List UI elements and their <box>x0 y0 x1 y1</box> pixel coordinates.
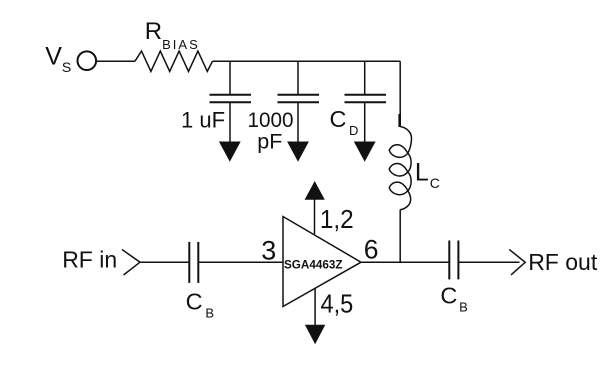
svg-text:RF out: RF out <box>528 249 598 275</box>
svg-text:4,5: 4,5 <box>321 288 354 318</box>
svg-text:3: 3 <box>261 236 276 266</box>
wire RF in to CB1 <box>140 261 189 263</box>
svg-text:pF: pF <box>257 130 282 154</box>
svg-text:1000: 1000 <box>248 108 294 132</box>
svg-text:1,2: 1,2 <box>320 204 354 234</box>
wire pin 6 to CB2 <box>361 261 449 263</box>
pin 1,2 arrow to supply <box>305 181 325 234</box>
ground C2 <box>287 142 309 162</box>
ground C1 <box>219 142 241 162</box>
wire C3 stub <box>364 61 366 94</box>
port RF in chevron <box>122 250 140 276</box>
resistor RBIAS <box>135 51 213 71</box>
pin 4,5 arrow to ground <box>305 289 325 345</box>
svg-text:1 uF: 1 uF <box>181 107 225 132</box>
svg-text:6: 6 <box>364 234 379 264</box>
capacitor CB2 <box>449 241 458 280</box>
capacitor C3 (CD) <box>345 95 387 102</box>
inductor LC <box>389 114 411 210</box>
wire C3 to ground <box>364 102 366 143</box>
capacitor C1 (1 uF) <box>210 95 252 102</box>
capacitor C2 (1000 pF) <box>278 95 320 102</box>
wire C1 to ground <box>229 102 231 143</box>
wire C2 stub <box>297 61 299 94</box>
wire rail corner to LC <box>399 61 401 126</box>
ground C3 <box>354 142 376 162</box>
op-amp U1 SGA4463Z <box>283 217 361 307</box>
wire VS to RBIAS <box>97 60 136 62</box>
wire C2 to ground <box>297 102 299 143</box>
port RF out chevron <box>509 249 525 275</box>
capacitor CB1 <box>189 242 198 283</box>
wire LC to output node <box>399 210 401 263</box>
svg-text:RF in: RF in <box>62 247 117 273</box>
wire CB2 to RF out <box>458 261 519 263</box>
wire C1 stub <box>229 61 231 94</box>
svg-text:SGA4463Z: SGA4463Z <box>284 257 343 271</box>
wire top rail <box>213 60 401 62</box>
terminal VS <box>78 51 97 70</box>
wire CB1 to pin 3 <box>198 261 283 263</box>
